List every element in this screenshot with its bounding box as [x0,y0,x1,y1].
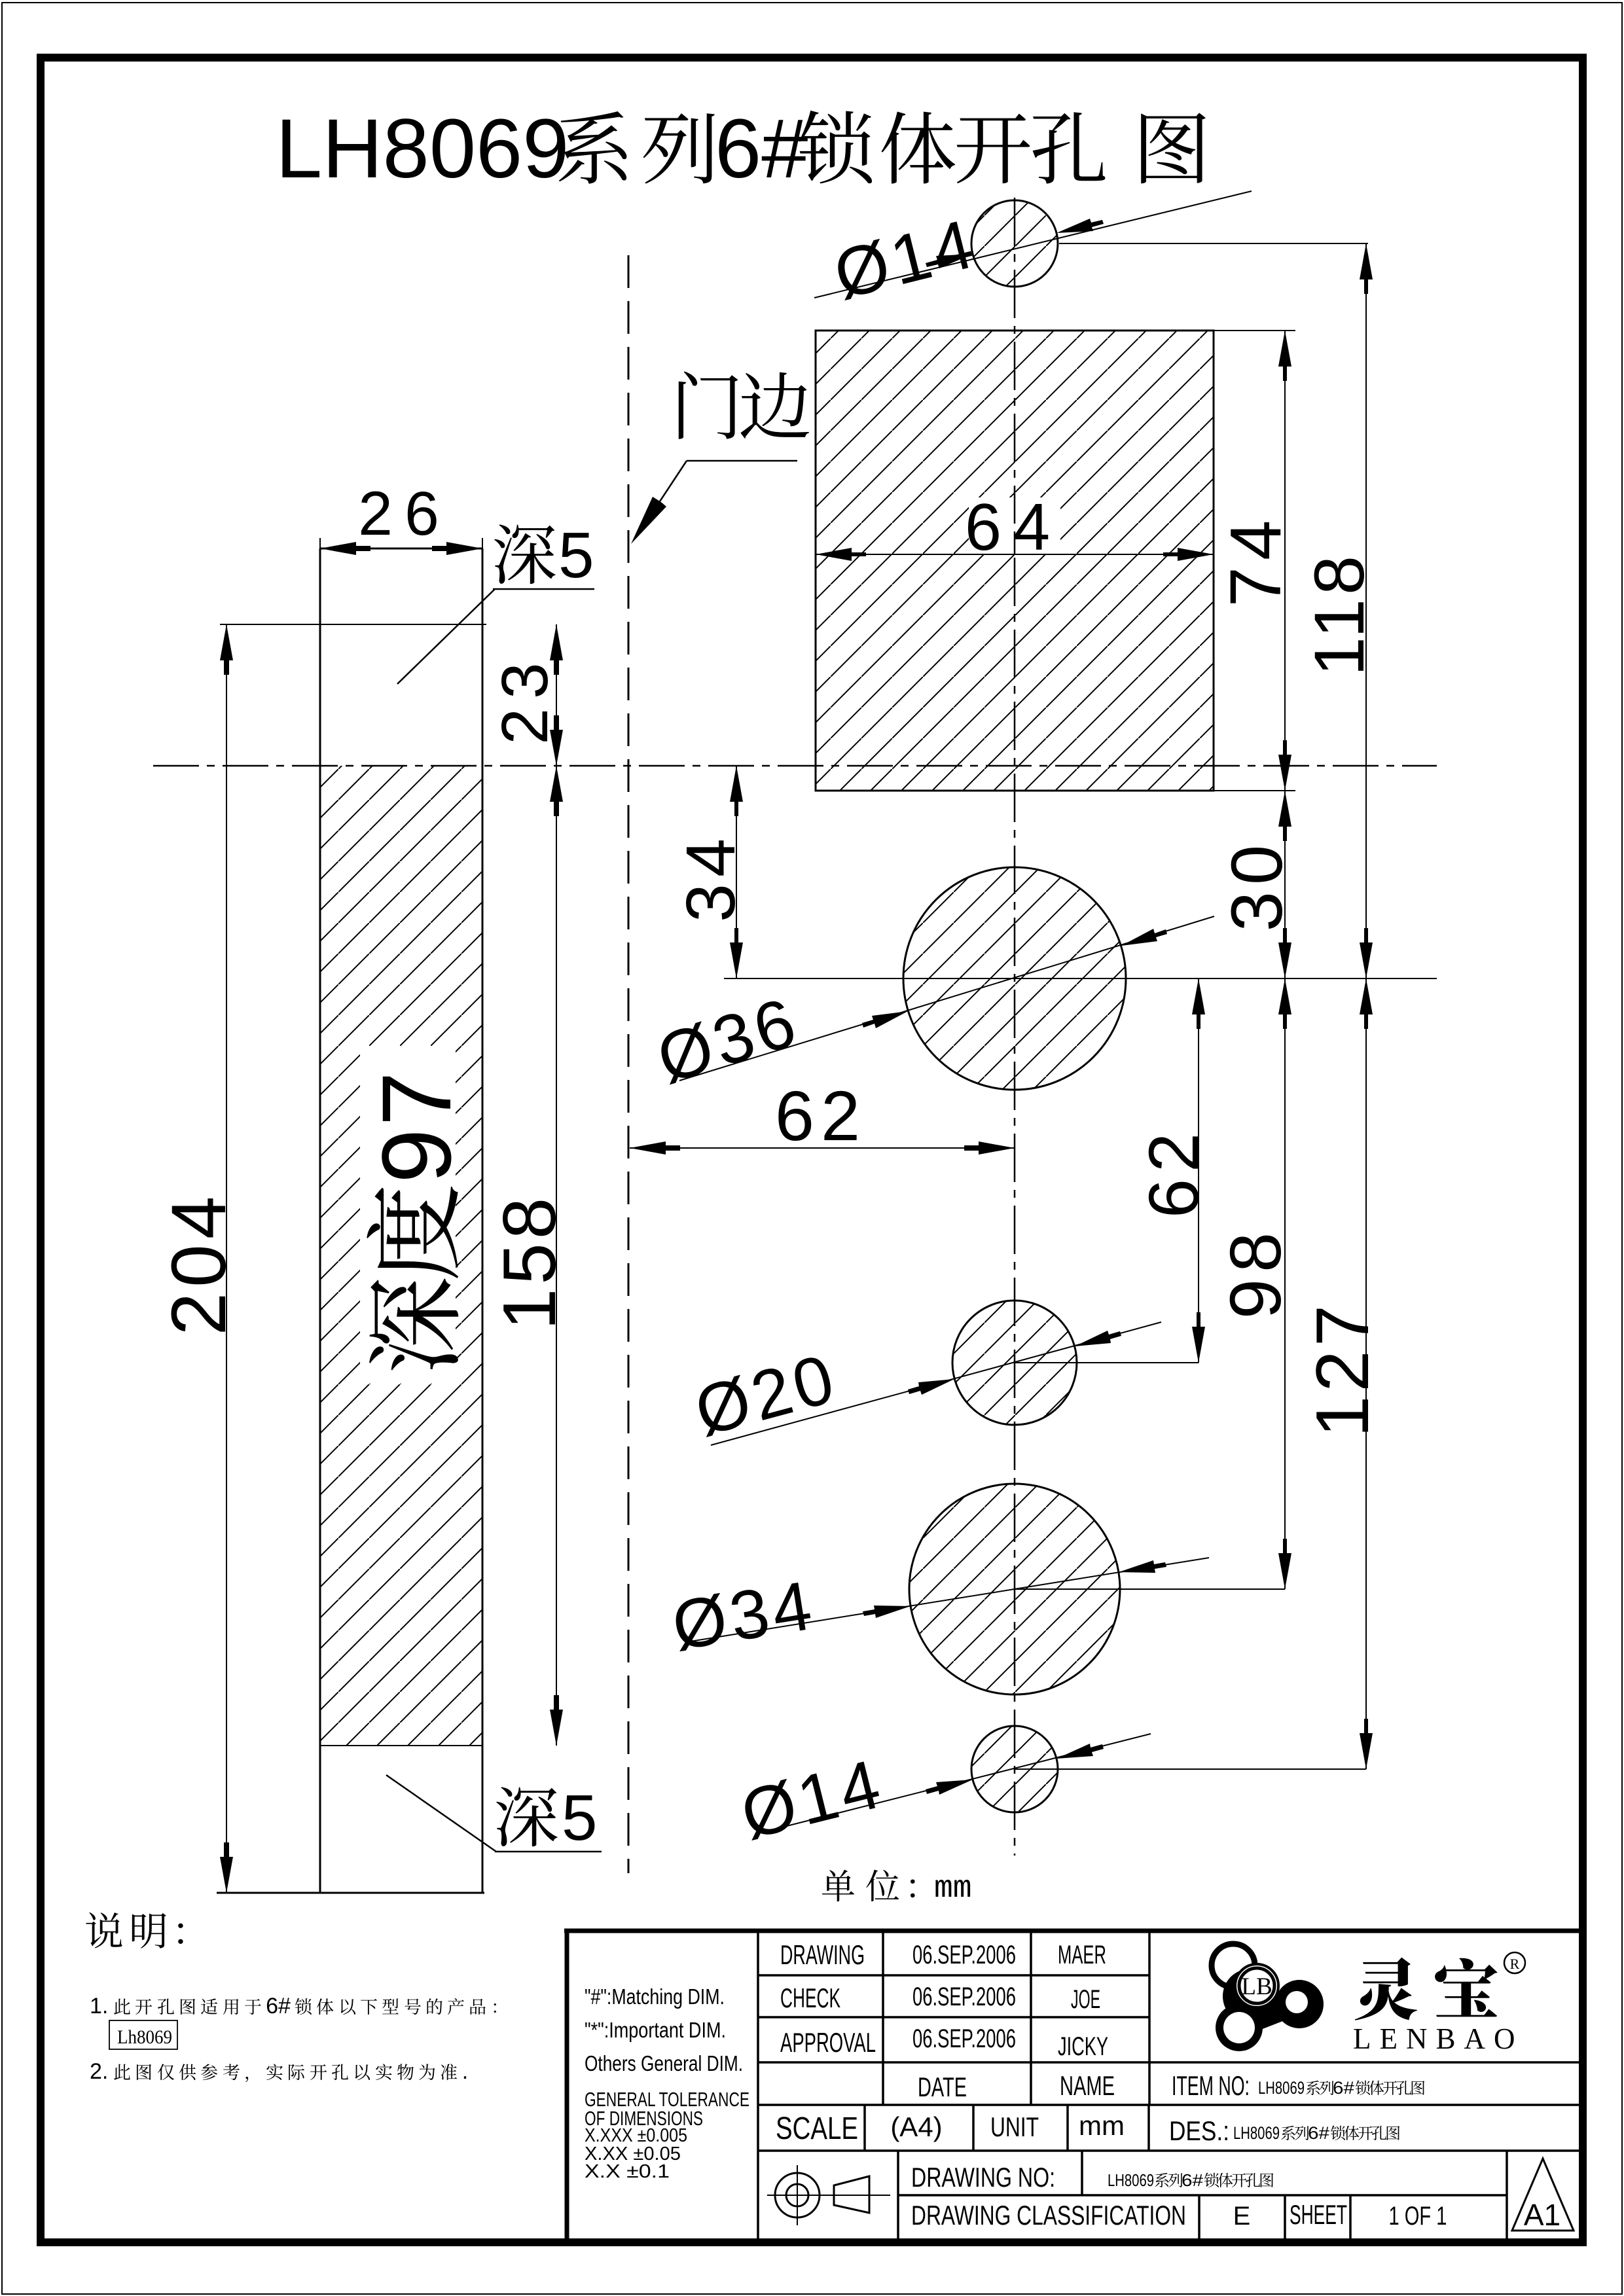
svg-text:204: 204 [156,1191,242,1336]
svg-text:"#":Matching DIM.: "#":Matching DIM. [585,1984,725,2009]
notes heading [86,1912,183,1948]
svg-text:mm: mm [934,1871,972,1907]
svg-text:Lh8069: Lh8069 [117,2026,172,2048]
door edge dashed line [628,255,630,1873]
dimension 62 vertical [1134,978,1213,1363]
svg-text:5: 5 [558,519,594,591]
extension line from D34 center [1015,1588,1285,1590]
svg-text:97: 97 [361,1069,471,1183]
dimension 74 [1216,331,1296,791]
svg-text:98: 98 [1216,1226,1296,1319]
svg-text:X.X ±0.1: X.X ±0.1 [585,2161,670,2182]
hole circle D36 [903,867,1126,1090]
svg-text:CHECK: CHECK [780,1982,840,2013]
svg-text:LH8069: LH8069 [1108,2170,1154,2190]
dimension 204 [156,624,242,1893]
svg-text:LH8069: LH8069 [1258,2078,1305,2098]
diameter label D36 [649,916,1214,1098]
svg-text:LH8069: LH8069 [276,102,569,196]
row drawing [780,1939,1106,1970]
svg-text:64: 64 [965,491,1062,564]
dimension 34 [672,766,749,978]
label depth 97 rotated inside strip [360,1046,471,1384]
tolerance notes column [585,1984,749,2182]
svg-text:mm: mm [1079,2110,1125,2141]
row approval [780,2024,1108,2061]
diameter label D34 [667,1558,1209,1665]
scale row [776,2110,1399,2146]
dimension 158 [488,766,571,1746]
svg-text:LENBAO: LENBAO [1353,2022,1523,2055]
label door-edge with leader arrow [631,371,809,544]
hole circle D20 [952,1300,1077,1425]
drawing no row [911,2162,1273,2193]
faceplate strip hatched area [320,766,482,1746]
note 1 [90,1994,496,2018]
svg-text:E: E [1233,2202,1251,2231]
diameter label D14 bottom [734,1734,1151,1854]
svg-text:6#: 6# [266,1994,291,2018]
extension lines square right [1214,330,1295,331]
svg-text:6#: 6# [1182,2170,1204,2190]
faceplate strip outline [217,548,484,1893]
svg-text:1.: 1. [90,1994,108,2018]
row check [780,1982,1100,2014]
svg-text:MAER: MAER [1058,1941,1106,1969]
svg-text:DRAWING CLASSIFICATION: DRAWING CLASSIFICATION [911,2200,1186,2231]
svg-text:06.SEP.2006: 06.SEP.2006 [912,1982,1016,2011]
extension line top of lock body [220,624,486,625]
hole circle D34 [909,1484,1120,1695]
note 1 product box Lh8069 [109,2020,177,2049]
svg-text:118: 118 [1299,552,1379,676]
svg-text:127: 127 [1301,1301,1384,1437]
horizontal datum centerline [153,765,1437,767]
diameter label D14 top [814,191,1252,314]
main vertical centerline [1014,198,1016,1856]
title block outer border [564,1929,1583,1933]
svg-text:DRAWING: DRAWING [780,1939,865,1970]
svg-text:Others General DIM.: Others General DIM. [585,2051,743,2075]
diameter label D20 [687,1322,1161,1450]
dimension 26 [320,479,482,555]
svg-text:APPROVAL: APPROVAL [780,2027,876,2058]
svg-text:6#: 6# [715,102,808,196]
svg-text:LH8069: LH8069 [1233,2123,1280,2143]
extension line from D14 top center [1059,243,1368,244]
extension ticks above strip [319,538,321,548]
lenbao logo mark [1212,1944,1324,2051]
svg-text:DATE: DATE [918,2072,967,2102]
classification row [911,2199,1447,2231]
svg-text:62: 62 [1134,1126,1213,1218]
note 2 [90,2059,468,2084]
extension line through D36 center [724,978,1437,979]
row date name [918,2070,1115,2102]
svg-text:1 OF 1: 1 OF 1 [1389,2202,1447,2231]
label depth-5 top with leader [397,519,594,684]
label depth-5 bottom with leader [386,1775,602,1854]
dimension 118 [1299,243,1379,978]
svg-text:.: . [462,2059,468,2084]
dimension 127 [1301,978,1384,1769]
svg-text:6#: 6# [1333,2078,1354,2098]
title block grid [758,1931,1583,2241]
lenbao logo text [1353,1952,1525,2055]
svg-text:2.: 2. [90,2059,108,2084]
svg-text:NAME: NAME [1060,2070,1115,2101]
svg-text:SHEET: SHEET [1290,2199,1347,2230]
svg-text:R: R [1510,1956,1520,1972]
dimension 62 horizontal [630,1076,1015,1155]
svg-text:62: 62 [775,1076,867,1155]
extension line from D14 bottom center [1015,1768,1366,1770]
hole circle D14 top [971,200,1058,287]
svg-text:74: 74 [1216,514,1296,607]
item no cell [1172,2070,1424,2101]
svg-text:DRAWING NO:: DRAWING NO: [911,2162,1055,2193]
extension line from D20 center [1015,1362,1199,1363]
svg-text:UNIT: UNIT [990,2111,1039,2142]
sheet size A1 marker [1512,2159,1574,2232]
svg-text:06.SEP.2006: 06.SEP.2006 [912,2024,1016,2053]
dimension 23 [488,624,563,766]
svg-text:LB: LB [1241,1973,1272,2000]
first angle projection symbol [767,2165,890,2225]
svg-text:DES.:: DES.: [1169,2115,1229,2146]
svg-text:6#: 6# [1308,2123,1329,2143]
svg-text:34: 34 [672,832,749,922]
svg-text:(A4): (A4) [890,2111,942,2142]
dimension 30 [1217,791,1297,978]
unit note mm [822,1870,972,1907]
svg-text:5: 5 [562,1782,598,1854]
svg-text:26: 26 [358,479,451,548]
hole circle D14 bottom [971,1726,1058,1812]
lock body square hatched [816,331,1214,791]
dimension 98 [1216,978,1296,1589]
title text LH8069 series 6# lock body drilling diagram [276,102,1206,196]
svg-text:ITEM NO:: ITEM NO: [1172,2070,1250,2101]
svg-text:SCALE: SCALE [776,2111,858,2146]
svg-text:158: 158 [488,1194,571,1330]
dimension 64 [816,491,1214,564]
svg-text:A1: A1 [1524,2198,1561,2232]
svg-text:JICKY: JICKY [1058,2032,1108,2061]
svg-text:06.SEP.2006: 06.SEP.2006 [912,1941,1016,1969]
svg-text:JOE: JOE [1071,1985,1100,2014]
svg-text:"*":Important DIM.: "*":Important DIM. [585,2018,726,2042]
svg-text:30: 30 [1217,838,1297,931]
svg-text:23: 23 [488,653,562,744]
